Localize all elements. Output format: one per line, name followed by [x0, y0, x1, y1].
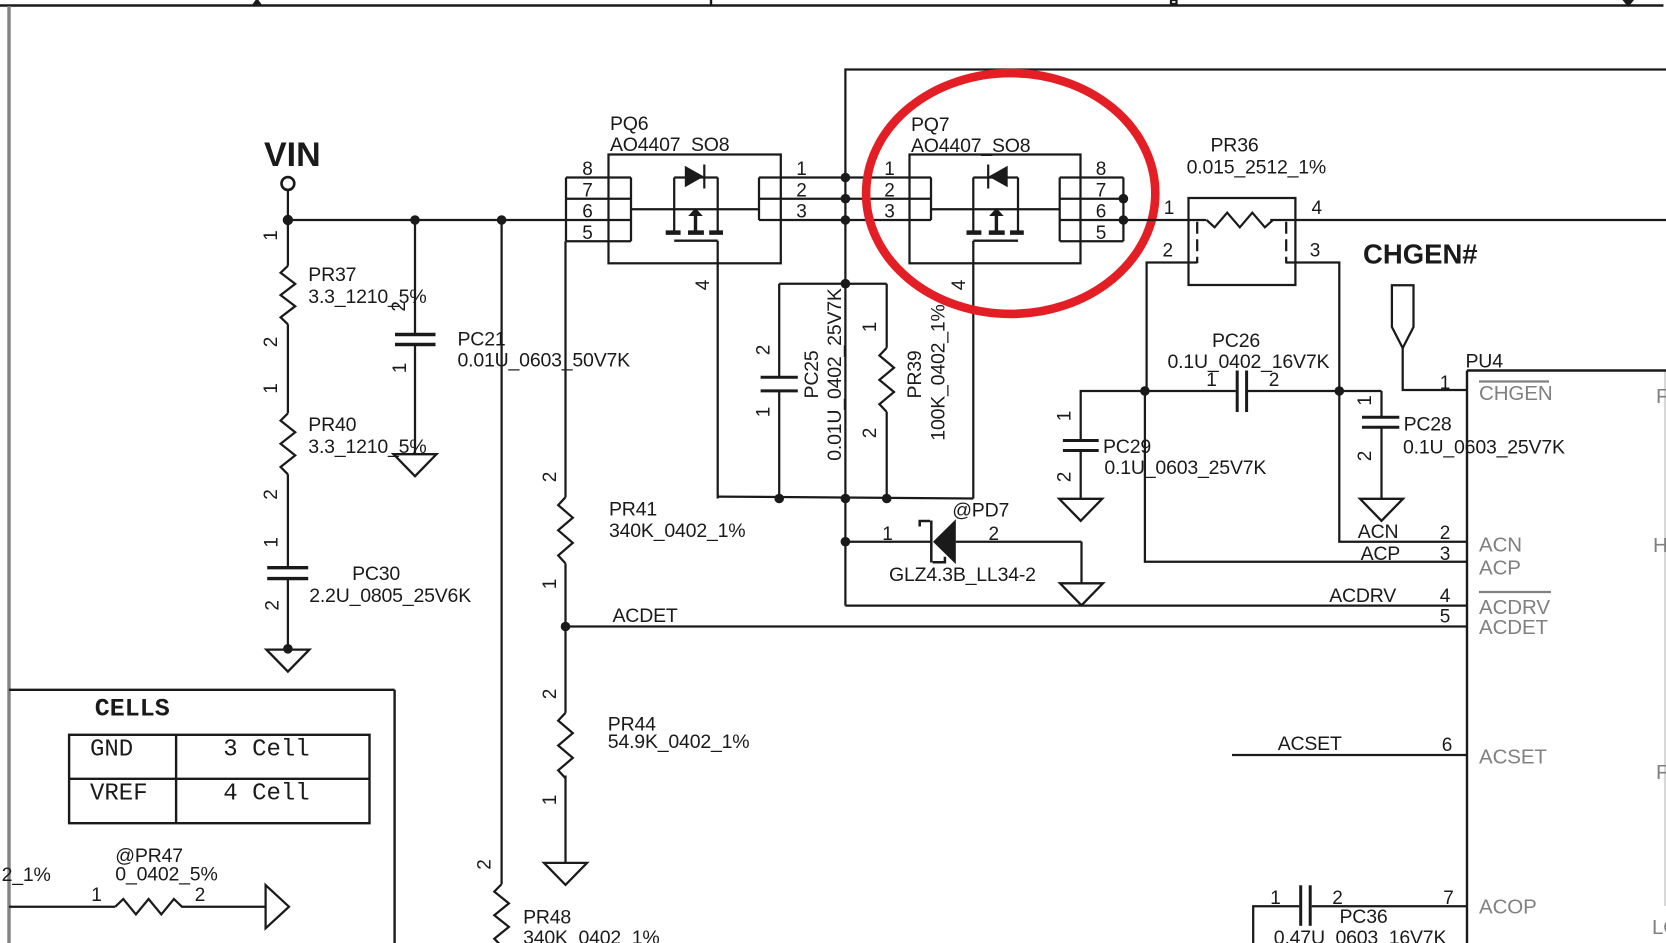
- svg-text:F: F: [1656, 385, 1666, 408]
- clipped glyph top-middle: [1171, 0, 1177, 4]
- junction PC25 top rail: [841, 279, 851, 289]
- junction row3: [841, 215, 851, 225]
- svg-text:PQ6: PQ6: [610, 113, 648, 135]
- wire ACDET: [566, 625, 1468, 627]
- transistor PQ6: [566, 113, 845, 263]
- junction PR48 column top: [497, 215, 507, 225]
- svg-text:5: 5: [1440, 607, 1451, 628]
- svg-text:ACP: ACP: [1361, 543, 1401, 565]
- junction row1: [841, 173, 851, 183]
- svg-text:2: 2: [1440, 523, 1451, 544]
- junction PC21 top: [410, 215, 420, 225]
- svg-text:1: 1: [1206, 370, 1217, 391]
- svg-text:5: 5: [1096, 223, 1107, 244]
- mosfet loop: [972, 178, 974, 232]
- junction PC26 left: [1140, 386, 1150, 396]
- svg-text:ACOP: ACOP: [1479, 896, 1537, 919]
- svg-text:1: 1: [1164, 198, 1175, 219]
- ground PD7: [1060, 583, 1103, 605]
- ground PC21: [394, 454, 437, 476]
- svg-text:2: 2: [989, 524, 1000, 545]
- red highlight circle around PQ7: [866, 73, 1155, 314]
- svg-text:PR40: PR40: [308, 414, 356, 436]
- resistor PR39: [860, 284, 950, 499]
- channel line: [931, 208, 1060, 210]
- svg-text:1: 1: [754, 407, 775, 418]
- svg-text:6: 6: [1096, 202, 1107, 223]
- right pin rows 8/7/6/5: [1060, 176, 1124, 178]
- junction row2: [841, 194, 851, 204]
- svg-text:1: 1: [261, 230, 282, 241]
- mosfet loop: [673, 178, 675, 232]
- ground PC29: [1059, 499, 1102, 521]
- svg-text:VIN: VIN: [264, 136, 321, 174]
- svg-text:ACDET: ACDET: [1479, 616, 1549, 639]
- resistor PR47: [2, 845, 289, 928]
- svg-text:ACDET: ACDET: [613, 605, 678, 627]
- svg-text:PC30: PC30: [352, 563, 400, 585]
- svg-text:PC21: PC21: [458, 329, 506, 351]
- sheet left border (gray): [7, 6, 10, 943]
- svg-text:3: 3: [1440, 544, 1451, 565]
- svg-text:1: 1: [1270, 888, 1281, 909]
- svg-text:@PD7: @PD7: [952, 500, 1009, 522]
- svg-text:3 Cell: 3 Cell: [223, 737, 309, 764]
- wire PR36 pin2: [1147, 263, 1197, 392]
- svg-text:3: 3: [884, 202, 895, 223]
- svg-text:4: 4: [949, 279, 970, 290]
- wire PC25/PR39 top: [779, 283, 887, 285]
- junction ACDET: [561, 622, 571, 632]
- capacitor PC29: [1055, 391, 1267, 499]
- svg-text:5: 5: [582, 223, 593, 244]
- output arrow: [266, 885, 289, 928]
- svg-text:2: 2: [263, 600, 284, 611]
- svg-text:ACN: ACN: [1479, 534, 1522, 557]
- svg-text:2: 2: [1269, 370, 1280, 391]
- cells table: [69, 735, 369, 823]
- node VIN: [264, 136, 321, 220]
- svg-text:8: 8: [1096, 159, 1107, 180]
- channel bars: [967, 230, 982, 235]
- svg-text:340K_0402_1%: 340K_0402_1%: [523, 927, 659, 943]
- diode PD7: [845, 500, 1081, 587]
- svg-text:2: 2: [754, 345, 775, 356]
- svg-text:0_0402_5%: 0_0402_5%: [115, 864, 217, 886]
- svg-text:8: 8: [582, 159, 593, 180]
- svg-text:2: 2: [1355, 451, 1376, 462]
- svg-text:PC28: PC28: [1404, 414, 1452, 436]
- resistor PR40: [261, 383, 426, 500]
- capacitor PC28: [1339, 391, 1565, 499]
- junction PC25 bottom: [774, 494, 784, 504]
- svg-text:ACN: ACN: [1358, 521, 1399, 543]
- svg-text:ACSET: ACSET: [1479, 746, 1547, 769]
- svg-text:2: 2: [261, 337, 282, 348]
- channel bars: [666, 230, 681, 235]
- resistor PR44: [540, 627, 749, 863]
- wire ACP: [1145, 391, 1467, 562]
- svg-text:54.9K_0402_1%: 54.9K_0402_1%: [608, 731, 750, 753]
- svg-text:1: 1: [540, 795, 561, 806]
- wire PQ7 pin4: [972, 241, 974, 499]
- svg-text:2: 2: [1163, 241, 1174, 262]
- junction PD7 row: [841, 537, 851, 547]
- wire ACN: [1339, 391, 1467, 542]
- wire PD7 to gnd: [1080, 542, 1082, 584]
- resistor PR37: [261, 220, 426, 347]
- gate line: [674, 239, 718, 241]
- right pin rows 1/2/3: [759, 176, 845, 178]
- svg-text:2: 2: [389, 301, 410, 312]
- svg-text:GND: GND: [90, 737, 133, 764]
- wire to PD7 row: [844, 499, 846, 606]
- wire top rail: [845, 70, 1666, 178]
- svg-text:PC36: PC36: [1340, 906, 1388, 928]
- svg-text:1: 1: [882, 524, 893, 545]
- svg-text:CELLS: CELLS: [95, 695, 170, 724]
- svg-text:PR48: PR48: [523, 907, 571, 929]
- svg-text:2: 2: [475, 859, 496, 870]
- left pin rows 8/7/6/5: [566, 176, 631, 178]
- svg-text:PR39: PR39: [904, 351, 926, 399]
- resistor PR48 (clipped): [475, 859, 660, 943]
- CELLS option box: [9, 690, 395, 943]
- wire source bottom rail: [718, 497, 974, 499]
- svg-text:340K_0402_1%: 340K_0402_1%: [609, 520, 745, 542]
- capacitor PC30: [262, 537, 472, 611]
- channel line: [631, 208, 759, 210]
- IC PU4: [1466, 351, 1666, 943]
- svg-text:PR41: PR41: [609, 499, 657, 521]
- svg-text:0.1U_0402_16V7K: 0.1U_0402_16V7K: [1168, 351, 1330, 373]
- svg-text:1: 1: [390, 363, 411, 374]
- svg-text:0.1U_0603_25V7K: 0.1U_0603_25V7K: [1403, 437, 1565, 459]
- body diode: [685, 166, 704, 188]
- resistor PR41: [540, 241, 745, 626]
- main body box: [609, 155, 781, 264]
- left pin rows 1/2/3: [845, 176, 931, 178]
- svg-text:4 Cell: 4 Cell: [223, 781, 309, 808]
- svg-text:3: 3: [1310, 241, 1321, 262]
- transistor PQ7: [845, 114, 1123, 263]
- svg-text:PR37: PR37: [308, 264, 356, 286]
- svg-text:0.015_2512_1%: 0.015_2512_1%: [1187, 157, 1326, 179]
- junction PQ7 pin6: [1119, 215, 1129, 225]
- svg-text:1: 1: [262, 537, 283, 548]
- junction PR39 bottom: [882, 494, 892, 504]
- capacitor PC26: [1145, 330, 1339, 412]
- svg-text:2: 2: [796, 181, 807, 202]
- wire pin6 row to PR36: [1123, 219, 1206, 221]
- wire PC30-gnd: [287, 579, 289, 650]
- svg-text:2.2U_0805_25V6K: 2.2U_0805_25V6K: [309, 585, 471, 607]
- svg-text:1: 1: [91, 885, 102, 906]
- svg-text:3: 3: [796, 202, 807, 223]
- svg-text:2: 2: [1055, 472, 1076, 483]
- svg-text:ACDRV: ACDRV: [1329, 585, 1396, 607]
- svg-text:0.47U_0603_16V7K: 0.47U_0603_16V7K: [1274, 927, 1447, 943]
- wire CHGEN# to PU4 pin1: [1403, 348, 1467, 390]
- svg-text:GLZ4.3B_LL34-2: GLZ4.3B_LL34-2: [889, 564, 1036, 586]
- body arrow: [995, 215, 998, 232]
- body arrow: [694, 215, 697, 232]
- svg-text:2: 2: [540, 472, 561, 483]
- svg-text:ACSET: ACSET: [1278, 733, 1342, 755]
- svg-text:1: 1: [540, 579, 561, 590]
- border tick: [710, 0, 712, 7]
- svg-text:1: 1: [1440, 373, 1451, 394]
- svg-text:ACP: ACP: [1479, 557, 1521, 580]
- svg-text:0.1U_0603_25V7K: 0.1U_0603_25V7K: [1104, 457, 1266, 479]
- ground PR44: [544, 863, 587, 885]
- svg-text:PC25: PC25: [801, 350, 823, 398]
- svg-text:0.01U_0603_50V7K: 0.01U_0603_50V7K: [458, 350, 631, 372]
- svg-text:4: 4: [693, 279, 714, 290]
- junction PC26 right: [1335, 386, 1345, 396]
- svg-text:LO: LO: [1652, 916, 1666, 939]
- svg-text:2: 2: [195, 885, 206, 906]
- body diode (points left): [989, 166, 1008, 188]
- wire PR36 pin4 out: [1270, 219, 1666, 221]
- svg-text:0.01U_0402_25V7K: 0.01U_0402_25V7K: [824, 288, 846, 461]
- capacitor PC25: [754, 284, 847, 499]
- svg-text:2: 2: [884, 181, 895, 202]
- capacitor PC36: [1253, 885, 1467, 943]
- wire PQ6 pin4: [717, 241, 719, 499]
- wire PR36 pin3: [1286, 263, 1340, 392]
- resistor PR36: [1163, 135, 1327, 286]
- wire PR37-PR40: [287, 324, 289, 413]
- off-page connector CHGEN#: [1392, 285, 1414, 348]
- svg-text:PR36: PR36: [1211, 135, 1259, 157]
- ground PC30: [266, 650, 309, 672]
- svg-text:1: 1: [261, 383, 282, 394]
- svg-text:1: 1: [860, 322, 881, 333]
- wire PR40-PC30: [287, 474, 289, 567]
- main body box: [910, 155, 1081, 264]
- junction PQ7 pin7: [1119, 194, 1129, 204]
- svg-text:PC26: PC26: [1212, 330, 1260, 352]
- junction VIN: [283, 215, 293, 225]
- svg-text:6: 6: [582, 202, 593, 223]
- svg-text:6: 6: [1442, 735, 1453, 756]
- ground PC28: [1360, 499, 1403, 521]
- svg-text:1: 1: [1355, 395, 1376, 406]
- svg-text:1: 1: [796, 159, 807, 180]
- svg-text:7: 7: [1096, 181, 1107, 202]
- svg-text:F: F: [1656, 761, 1666, 784]
- junction at PC30 ground: [283, 644, 293, 654]
- svg-text:VREF: VREF: [90, 781, 148, 808]
- svg-text:7: 7: [582, 181, 593, 202]
- sheet top border: [0, 4, 1664, 6]
- svg-text:H: H: [1653, 534, 1666, 557]
- svg-text:4: 4: [1312, 198, 1323, 219]
- svg-text:CHGEN#: CHGEN#: [1363, 239, 1478, 270]
- svg-text:2_1%: 2_1%: [2, 864, 51, 886]
- clipped glyph top-left: [252, 0, 262, 5]
- wire ACDRV: [845, 604, 1467, 606]
- svg-text:CHGEN: CHGEN: [1479, 382, 1553, 405]
- svg-text:2: 2: [540, 689, 561, 700]
- svg-text:AO4407_SO8: AO4407_SO8: [610, 134, 729, 156]
- svg-text:PU4: PU4: [1466, 351, 1504, 373]
- svg-text:1: 1: [1055, 411, 1076, 422]
- svg-text:2: 2: [860, 428, 881, 439]
- svg-text:7: 7: [1443, 888, 1454, 909]
- svg-text:100K_0402_1%: 100K_0402_1%: [928, 304, 950, 440]
- wire ACSET: [1232, 754, 1467, 756]
- wire long net to PR48: [500, 220, 502, 884]
- svg-text:2: 2: [261, 489, 282, 500]
- svg-text:PQ7: PQ7: [911, 114, 949, 136]
- capacitor PC21: [389, 220, 630, 454]
- wire VIN rail: [288, 219, 566, 221]
- sheet right faint edge: [1664, 371, 1666, 906]
- clipped off-page arrow top-right: [1623, 0, 1635, 7]
- wire drain net vertical: [844, 178, 846, 499]
- gate line: [973, 239, 1018, 241]
- svg-text:1: 1: [884, 159, 895, 180]
- junction drain net bottom: [841, 494, 851, 504]
- svg-text:4: 4: [1440, 586, 1451, 607]
